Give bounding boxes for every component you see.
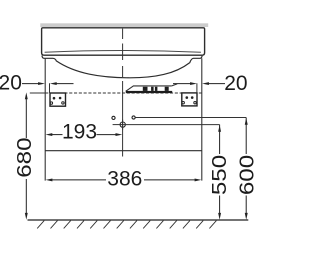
cabinet top hidden edge (dashed)	[45, 92, 202, 94]
drain cross symbol	[113, 120, 126, 130]
under-bowl profile with side lips	[42, 56, 202, 78]
washbasin body outline	[42, 28, 205, 55]
extension line left of cabinet top	[30, 92, 45, 94]
550 dimension	[208, 125, 231, 220]
680 dimension	[13, 92, 36, 219]
193 dimension	[46, 121, 123, 144]
reference line to 550	[123, 124, 220, 126]
600 dimension	[235, 118, 258, 220]
right mounting bracket	[182, 93, 197, 106]
small hole circle right	[132, 116, 135, 119]
ground line	[28, 219, 249, 221]
small hole circle left	[112, 116, 115, 119]
svg-text:600: 600	[235, 155, 258, 195]
cabinet bottom	[45, 150, 202, 152]
washbasin top slab (gray strip)	[40, 23, 208, 27]
cabinet right side / extension line	[201, 58, 203, 180]
svg-text:20: 20	[0, 72, 22, 95]
svg-text:193: 193	[62, 121, 97, 144]
center line (solid lower part)	[122, 81, 124, 157]
reference line to 600	[135, 117, 246, 119]
ground hatching	[37, 221, 216, 229]
left mounting bracket	[50, 93, 66, 106]
right 20 dimension	[173, 72, 248, 95]
svg-text:550: 550	[208, 155, 231, 195]
left 20 dimension	[0, 72, 74, 95]
cabinet left side / extension line	[44, 58, 46, 180]
center line (dashed top part)	[122, 29, 124, 77]
washbasin inner rim curve	[45, 51, 201, 53]
svg-text:680: 680	[13, 137, 36, 177]
svg-text:386: 386	[107, 168, 142, 191]
drain trap fitting	[126, 86, 172, 91]
386 dimension	[46, 168, 202, 191]
svg-text:20: 20	[224, 72, 247, 95]
